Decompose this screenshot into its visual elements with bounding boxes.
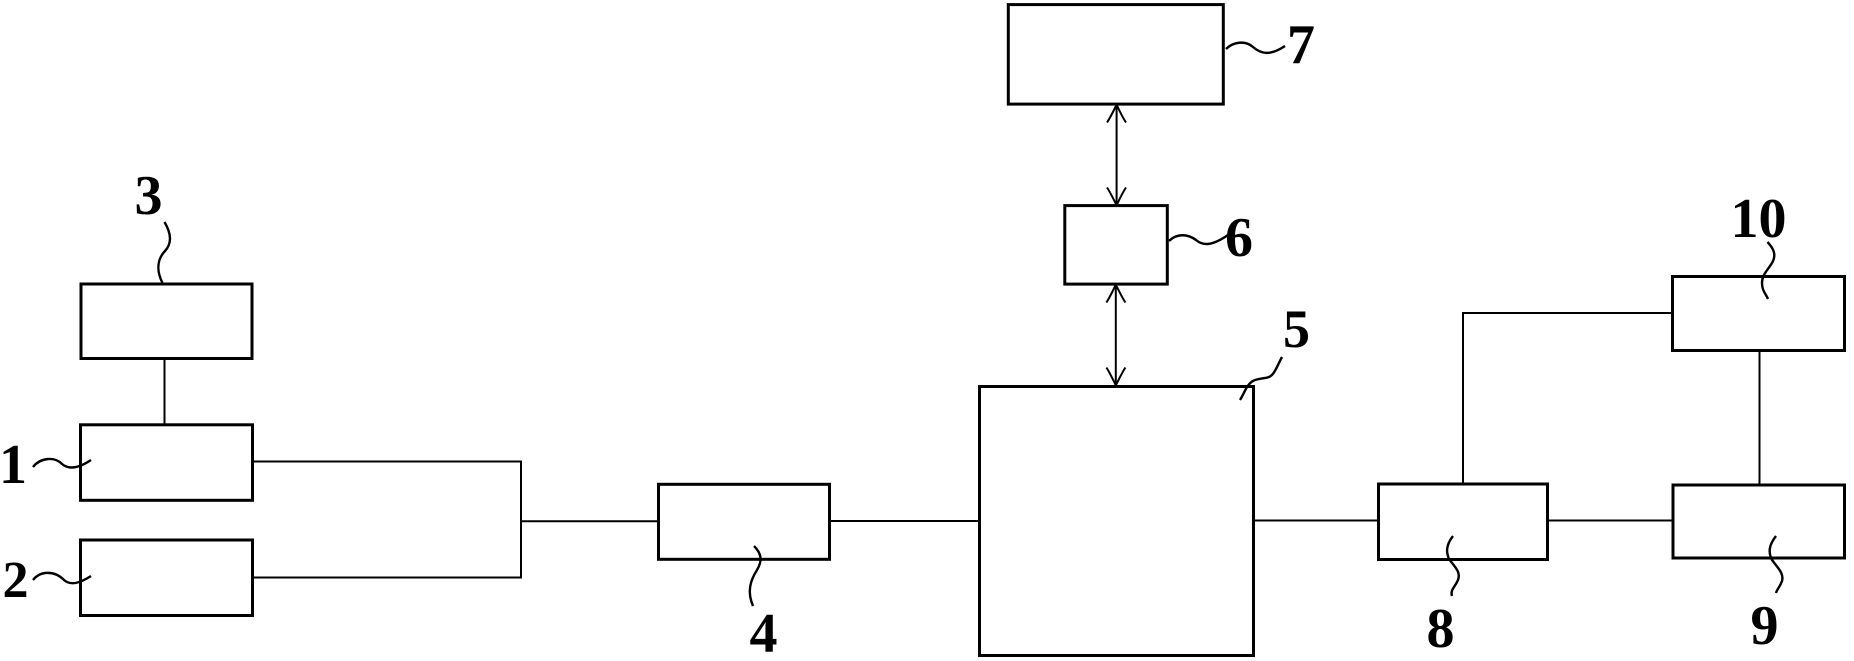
arrow block6-block5 [1106,285,1125,385]
block 6 [1065,206,1168,285]
svg-text:6: 6 [1225,207,1253,269]
wire block3 to block1 [164,357,166,425]
wire block8 to block9 [1547,520,1673,522]
block 3 [81,284,252,359]
block 9 [1673,485,1845,558]
wire block10 to block9 [1759,350,1761,486]
svg-text:5: 5 [1283,299,1310,359]
wire to block10 [1462,312,1673,314]
wire block8 up [1462,313,1464,486]
block 1 [81,425,253,501]
svg-text:9: 9 [1751,595,1779,657]
wire block5 to block8 [1253,520,1379,522]
leader for label 5 [1240,357,1282,400]
block 10 [1673,277,1845,351]
leader for label 2 [33,573,91,583]
block 8 [1379,484,1548,560]
svg-text:4: 4 [750,603,778,661]
arrow block7-block6 [1107,105,1126,205]
leader for label 4 [750,546,761,606]
leader for label 6 [1169,235,1228,244]
wire block2 to junction [251,577,522,579]
block 2 [81,540,253,616]
leader for label 1 [33,459,91,468]
leader for label 10 [1762,242,1774,299]
svg-text:10: 10 [1731,188,1787,250]
wire junction vertical [520,461,522,579]
leader for label 9 [1770,536,1783,593]
leader for label 7 [1226,43,1285,53]
svg-text:2: 2 [3,552,29,609]
wire block4 to block5 [829,520,980,522]
wire junction to block4 [521,520,659,522]
svg-text:1: 1 [0,434,27,496]
svg-text:8: 8 [1427,598,1455,660]
leader for label 8 [1447,536,1459,596]
svg-text:3: 3 [135,165,163,227]
svg-text:7: 7 [1287,14,1315,76]
wire block1 to junction [251,461,522,463]
block 7 [1008,5,1223,105]
leader for label 3 [158,222,170,283]
block 4 [659,484,830,559]
block 5 [980,387,1254,656]
